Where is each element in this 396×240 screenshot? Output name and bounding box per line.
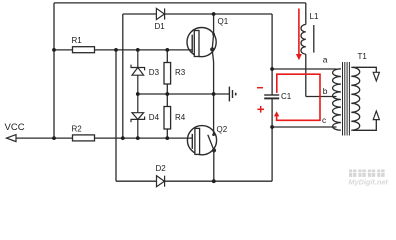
wire Q1 source to node: [213, 62, 215, 94]
svg-text:D4: D4: [149, 113, 160, 122]
C1 minus sign: [257, 87, 263, 89]
junction R2 line to D4: [136, 136, 140, 140]
transformer T1 primary winding: [333, 69, 341, 130]
diode D1: [156, 8, 164, 19]
junction node c: [270, 125, 274, 129]
svg-text:a: a: [323, 55, 328, 65]
wire node a line: [272, 68, 336, 70]
wire secondary bottom lead: [353, 120, 376, 131]
svg-text:Q1: Q1: [218, 17, 229, 26]
wire node b line: [306, 96, 337, 98]
wire vertical x116 (R1 line to bottom wire): [115, 50, 117, 181]
junction bottom line to Q2 source: [212, 179, 216, 183]
svg-text:R4: R4: [175, 113, 186, 122]
wire top rail: [54, 2, 306, 4]
resistor R2: [72, 124, 95, 141]
svg-text:Q2: Q2: [217, 125, 228, 134]
terminal arrow top (down): [373, 72, 379, 81]
svg-text:D2: D2: [156, 164, 167, 173]
junction R1 line to D2 branch: [114, 48, 118, 52]
wire node c line: [272, 126, 336, 128]
inductor L1: [301, 3, 314, 97]
wire big right vertical lower (C1 to bottom): [271, 99, 273, 181]
red current arrow (down, beside L1): [296, 9, 302, 61]
svg-text:D3: D3: [149, 68, 160, 77]
wire bottom line right of D2: [163, 180, 272, 182]
junction mid line to D3/D4: [136, 92, 140, 96]
svg-text:R2: R2: [72, 124, 83, 133]
wire left vertical: [53, 3, 55, 138]
diode D2: [157, 176, 165, 187]
junction R2 line to R4: [165, 136, 169, 140]
svg-text:R1: R1: [72, 36, 83, 45]
zener D4: [131, 94, 145, 138]
red loop arrowhead (up): [274, 111, 279, 116]
watermark: [349, 170, 389, 187]
wire secondary top lead: [353, 67, 376, 72]
resistor R4: [164, 94, 186, 138]
junction R1 line to R3: [165, 48, 169, 52]
wire big right vertical upper (D1 line to C1): [271, 14, 273, 95]
transistor Q1: [187, 14, 229, 62]
svg-text:c: c: [322, 115, 327, 125]
resistor R3: [164, 50, 186, 94]
wire vertical x123 (D1 line to R2 line): [122, 14, 124, 138]
VCC terminal arrow: [7, 135, 17, 142]
wire bottom line left of D2: [116, 180, 157, 182]
svg-text:L1: L1: [310, 12, 319, 21]
wire mid source line y94 with ground lead: [138, 93, 229, 95]
ground: [229, 87, 235, 102]
red current loop around C1: [277, 74, 320, 120]
junction R1 left / left rail: [52, 48, 56, 52]
svg-text:C1: C1: [281, 92, 292, 101]
svg-text:VCC: VCC: [5, 122, 25, 133]
C1 plus sign: [257, 106, 264, 113]
junction mid line to R3/R4: [165, 92, 169, 96]
transistor Q2: [187, 94, 227, 181]
junction VCC line / left rail: [52, 136, 56, 140]
svg-text:D1: D1: [155, 22, 166, 31]
wire R1 to Q1 gate: [95, 49, 193, 51]
wire VCC line left of R2: [16, 137, 73, 139]
junction node a: [270, 67, 274, 71]
wire D1 line left: [123, 13, 157, 15]
terminal arrow bottom (up): [373, 111, 379, 120]
resistor R1: [72, 36, 95, 53]
junction D1 line to Q1 drain: [212, 12, 216, 16]
wire R2 to Q2 gate: [95, 137, 193, 139]
svg-text:b: b: [323, 86, 328, 96]
junction R1 line to D3: [136, 48, 140, 52]
transformer T1 secondary winding: [351, 67, 359, 130]
junction R2 line to D1 branch: [121, 136, 125, 140]
capacitor C1: [264, 92, 292, 101]
transformer T1 core: [343, 62, 350, 136]
svg-text:T1: T1: [358, 52, 368, 61]
svg-text:MyDigit.net: MyDigit.net: [349, 178, 389, 187]
svg-text:R3: R3: [175, 68, 186, 77]
wire D1 line right: [165, 13, 273, 15]
zener D3: [131, 50, 145, 94]
junction mid line to Q1/Q2: [212, 92, 216, 96]
wire R1 line left segment: [54, 49, 73, 51]
